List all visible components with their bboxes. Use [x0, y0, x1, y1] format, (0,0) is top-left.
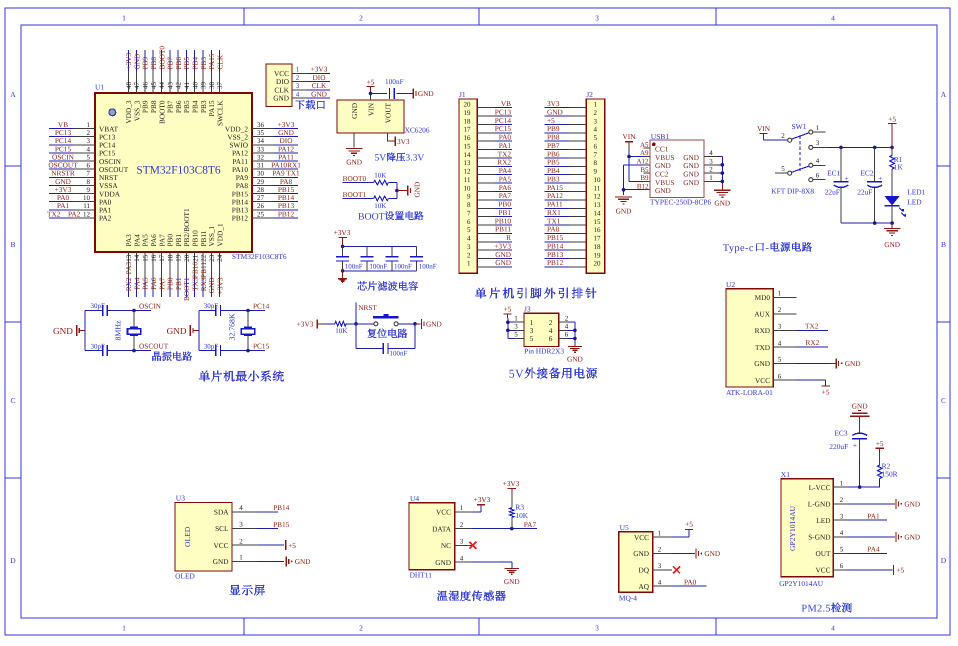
svg-text:D: D: [941, 556, 947, 565]
svg-text:31: 31: [257, 162, 265, 170]
X1 designator: [781, 470, 790, 479]
svg-text:EC2: EC2: [860, 169, 873, 178]
svg-text:B5: B5: [640, 166, 649, 174]
junction node filter top left: [341, 245, 345, 249]
svg-text:PA4: PA4: [867, 545, 880, 554]
U1 pin 34 SWIO: [229, 137, 274, 149]
svg-text:12: 12: [594, 193, 602, 201]
wire GND to EC3: [859, 420, 861, 434]
EC2 designator: [860, 169, 873, 178]
node GND label: [278, 128, 294, 137]
node RX2 label (J1): [497, 158, 511, 167]
svg-text:+3V3: +3V3: [474, 495, 491, 504]
junction node crystal/PC15: [246, 349, 250, 353]
node OSCOUT label: [139, 341, 169, 350]
svg-text:+5: +5: [822, 388, 830, 397]
svg-text:22uF: 22uF: [825, 188, 840, 197]
wire net at U1 pin 34: [274, 144, 298, 146]
svg-text:Type-c: Type-c: [723, 243, 754, 254]
svg-text:RXD: RXD: [755, 326, 770, 335]
ground bar GND (crystal): [167, 325, 193, 336]
crystal 8MHz leads: [133, 311, 135, 351]
node GND label: [55, 177, 71, 186]
sensor X1 GP2Y1014AU body: [781, 479, 833, 577]
J2 pin number 9: [594, 168, 598, 176]
svg-text:6: 6: [840, 562, 844, 570]
svg-text:GND: GND: [845, 359, 861, 368]
R1 value 1K: [894, 163, 904, 172]
wire net at U1 pin 5: [49, 160, 73, 162]
node PA11 label (J2): [547, 200, 563, 209]
power +5 port at R1: [888, 114, 896, 147]
node PC15 label: [253, 341, 270, 350]
label 芯片滤波电容: [357, 281, 417, 290]
node PB15 label: [278, 185, 295, 194]
svg-text:GND: GND: [413, 182, 422, 198]
wire capacitor to GND bar: [396, 92, 412, 94]
node +3V3 label: [278, 120, 295, 129]
svg-text:5: 5: [530, 334, 534, 343]
svg-text:28: 28: [257, 186, 265, 194]
svg-text:11: 11: [83, 202, 90, 210]
ground symbol U4: [505, 568, 519, 574]
node PB5 label: [182, 57, 191, 70]
wire net PB15 at J2 pin 17: [545, 241, 570, 243]
U5 pin 1 VCC: [634, 529, 672, 542]
wire net +3V3 at download pin 1: [308, 72, 331, 74]
crystal 8MHz: [127, 327, 140, 335]
wire net +5 at J2 pin 3: [545, 123, 570, 125]
node PB4 label: [191, 57, 200, 70]
svg-text:1: 1: [239, 554, 243, 562]
svg-text:3: 3: [709, 157, 713, 165]
wire net at U1 pin 12: [49, 217, 73, 219]
frame zone letters right: [941, 90, 947, 565]
power 3V3 port: [395, 136, 410, 146]
node BOOT0 label: [157, 46, 166, 70]
crystal 32.768K: [241, 327, 254, 335]
svg-text:19: 19: [594, 251, 602, 259]
svg-text:16: 16: [594, 226, 602, 234]
U1 designator: [95, 83, 104, 92]
wire net at U1 pin 13: [127, 277, 129, 297]
svg-text:10K: 10K: [374, 202, 386, 210]
svg-text:3: 3: [514, 323, 518, 331]
svg-text:GND: GND: [704, 549, 720, 558]
wire net at U1 pin 6: [49, 168, 73, 170]
USB1 pin A12 GND: [636, 158, 670, 171]
node PB13 label: [278, 201, 295, 210]
SW1 pin 3: [809, 139, 827, 149]
XC6206 pin name VIN: [366, 102, 375, 116]
wire net at U1 pin 17: [161, 277, 163, 297]
USB1 pin A9 VBUS: [640, 149, 675, 162]
power +5 bar (U3): [286, 540, 297, 550]
svg-text:5: 5: [781, 165, 785, 173]
resistor 10K on BOOT1: [374, 196, 389, 201]
U1 pin 46 PB9: [141, 71, 150, 113]
J1 pin number 13: [464, 159, 472, 167]
wire U3 SCL net PB15: [258, 528, 279, 530]
svg-text:+5: +5: [896, 566, 904, 575]
U1 pin 33 PA12: [232, 145, 274, 157]
resistor 10K (reset): [335, 322, 346, 327]
wire X1 pin2 to GND bar: [847, 503, 895, 505]
svg-text:GND: GND: [904, 533, 920, 542]
J2 pin 20 stub: [569, 266, 586, 268]
node OSCIN label: [52, 152, 75, 161]
node TX3 label: [191, 277, 200, 291]
svg-text:1: 1: [778, 290, 782, 298]
U5 pin 4 AQ: [638, 578, 672, 591]
svg-text:SW1: SW1: [792, 122, 807, 131]
wire net RX1 at J2 pin 14: [545, 216, 570, 218]
wire net GND at J2 pin 2: [545, 115, 570, 117]
node PC14 label (J1): [495, 116, 512, 125]
svg-text:47: 47: [133, 82, 141, 90]
svg-text:VCC: VCC: [436, 508, 451, 517]
crystal 32.768K leads: [247, 311, 249, 351]
svg-text:GND: GND: [346, 158, 362, 167]
wire J3 pin 5: [508, 337, 515, 339]
ground symbol filter caps: [338, 279, 347, 283]
svg-text:13: 13: [464, 159, 472, 167]
svg-text:3.3V: 3.3V: [405, 153, 424, 164]
XC6206 VOUT pin stub: [387, 133, 389, 139]
svg-text:4: 4: [831, 14, 835, 23]
USB1 pin B9 VBUS: [640, 174, 674, 187]
svg-text:100nF: 100nF: [345, 262, 363, 270]
wire net PB8 at J2 pin 5: [545, 140, 570, 142]
svg-text:OSCOUT: OSCOUT: [139, 341, 169, 350]
J1 pin number 16: [464, 134, 472, 142]
wire to USB right ground: [721, 184, 723, 190]
wire net PA12 at J2 pin 12: [545, 199, 570, 201]
svg-text:100nF: 100nF: [385, 77, 404, 86]
wire net at U1 pin 8: [49, 184, 73, 186]
node PB3 label: [199, 57, 208, 70]
wire net TX1 at J2 pin 15: [545, 224, 570, 226]
svg-text:8: 8: [467, 201, 471, 209]
svg-text:2: 2: [359, 14, 363, 23]
node PA7 label (J1): [499, 191, 512, 200]
wire net RX2 at J1 pin 13: [495, 165, 512, 167]
J1 pin number 19: [464, 109, 472, 117]
svg-text:10: 10: [83, 194, 91, 202]
node +3V3 label: [311, 65, 328, 74]
LED1 designator: [907, 187, 925, 196]
svg-text:+: +: [853, 441, 857, 450]
wire net PB3 at J2 pin 10: [545, 182, 570, 184]
svg-text:SCL: SCL: [215, 524, 229, 533]
U1 pin 2 PC13: [73, 129, 116, 141]
svg-text:4: 4: [709, 149, 713, 157]
svg-text:RX2: RX2: [806, 338, 820, 347]
wire USB right pin 2: [717, 172, 722, 174]
svg-text:7: 7: [594, 151, 598, 159]
wire filter cap top rail: [343, 245, 417, 247]
wire net GND at J1 pin 1: [495, 266, 512, 268]
J2 pin 15 stub: [569, 224, 586, 226]
resistor R1 1K: [890, 155, 895, 169]
wire net PB1 at J1 pin 7: [495, 216, 512, 218]
U1 pin 12 PA2: [73, 210, 112, 222]
wire crystal row OSCIN: [85, 310, 151, 312]
svg-text:L-GND: L-GND: [808, 500, 831, 509]
capacitor value 30pF (PC14): [204, 302, 219, 310]
node 3V3 label (J2): [547, 99, 560, 108]
wire net at U1 pin 39: [202, 50, 204, 71]
node RX2 label (U2): [806, 338, 820, 347]
U1 pin 41 PB5: [182, 71, 191, 113]
svg-text:PA2: PA2: [99, 214, 112, 223]
J1 pin 5 stub: [477, 232, 495, 234]
label 5V降压3.3V: [375, 153, 425, 164]
wire net at U1 pin 26: [274, 209, 298, 211]
wire net GND at download pin 4: [308, 97, 331, 99]
U1 pin 39 PB3: [199, 71, 208, 113]
U1 pin 9 VDDA: [73, 186, 121, 198]
R3 lead bottom: [511, 518, 513, 529]
J2 pin number 6: [594, 142, 598, 150]
svg-text:6: 6: [816, 171, 820, 179]
U3 comment OLED: [175, 572, 195, 581]
XC6206 pin name VOUT: [384, 102, 393, 123]
svg-text:TYPEC-250D-8CP6: TYPEC-250D-8CP6: [650, 198, 711, 207]
capacitor 100nF #2: [361, 257, 374, 261]
U1 comment STM32F103C8T6: [232, 252, 287, 261]
U1 pin 37 SWCLK: [215, 71, 224, 126]
svg-text:9: 9: [594, 168, 598, 176]
USB1 right pin 3 GND: [683, 157, 717, 170]
svg-text:+5: +5: [288, 541, 296, 550]
svg-text:38: 38: [208, 82, 216, 90]
node PA2 label at U1 pin 12: [68, 209, 81, 218]
svg-text:5: 5: [87, 153, 91, 161]
download port pin 2 DIO: [276, 74, 307, 86]
junction node L-VCC: [858, 485, 862, 489]
svg-text:2: 2: [296, 74, 300, 82]
node RX1 label (J2): [547, 208, 561, 217]
SW1 pin 6: [809, 171, 826, 181]
svg-text:4: 4: [840, 529, 844, 537]
regulator U? XC6206 body: [337, 100, 404, 133]
U1 pin 3 PC14: [73, 137, 116, 149]
node PB15 label (J2): [547, 233, 564, 242]
U1 pin 1 VBAT: [73, 121, 119, 133]
svg-text:8MHz: 8MHz: [114, 320, 123, 340]
svg-text:5: 5: [778, 356, 782, 364]
svg-text:3: 3: [778, 323, 782, 331]
U1 pin 48 VDD_3: [124, 71, 133, 124]
node GND label: [311, 89, 327, 98]
svg-text:32.768K: 32.768K: [228, 313, 237, 340]
svg-text:11: 11: [594, 184, 601, 192]
U1 pin 40 PB4: [191, 71, 200, 113]
USB1 comment TYPEC-250D-8CP6: [650, 198, 711, 207]
node DIO label: [313, 73, 326, 82]
node TX1 label (J2): [547, 216, 561, 225]
svg-text:VIN: VIN: [757, 124, 771, 133]
J1 pin 19 stub: [477, 115, 495, 117]
svg-text:LED: LED: [907, 197, 922, 206]
wire BOOT0 to resistor: [343, 182, 374, 184]
U1 pin 38 PA15: [207, 71, 216, 116]
ground symbol USB right: [714, 190, 731, 197]
svg-text:VCC: VCC: [634, 533, 649, 542]
capacitor 100nF #4: [410, 257, 423, 261]
R3 designator: [515, 503, 524, 512]
svg-text:22: 22: [200, 254, 208, 261]
wire net 3V3 at J2 pin 1: [545, 107, 570, 109]
J2 pin number 12: [594, 193, 602, 201]
svg-text:100nF: 100nF: [394, 262, 412, 270]
wire net at U1 pin 37: [219, 50, 221, 71]
node RX2 label: [124, 277, 133, 291]
U2 pin 6 VCC: [755, 372, 796, 385]
node PB11 label: [199, 262, 208, 278]
ground bar GND (U2): [836, 358, 860, 368]
capacitor 30pF (PC15): [216, 345, 221, 356]
U1 pin 25 PB12: [232, 210, 274, 222]
node PB10 label (J1): [495, 216, 512, 225]
node GND label (J1): [495, 258, 511, 267]
svg-text:GND: GND: [311, 89, 327, 98]
svg-text:17: 17: [464, 126, 472, 134]
svg-text:7: 7: [467, 209, 471, 217]
U1 pin 32 PA11: [232, 153, 274, 165]
wire U3 GND to gnd bar: [258, 561, 285, 563]
U2 pin 4 TXD: [755, 339, 796, 352]
node PB1 label: [174, 277, 183, 290]
svg-text:3: 3: [296, 82, 300, 90]
svg-text:+5: +5: [888, 114, 896, 123]
svg-text:18: 18: [594, 243, 602, 251]
svg-text:DHT11: DHT11: [410, 570, 433, 579]
wire reset cap bottom: [356, 348, 415, 350]
svg-text:B: B: [10, 240, 15, 249]
wire J3 pin 4: [567, 329, 575, 331]
wire GND pins A12/B12: [624, 165, 644, 195]
wire net PB7 at J2 pin 6: [545, 149, 570, 151]
node PA0 label: [684, 577, 697, 586]
svg-text:1: 1: [594, 101, 598, 109]
svg-text:GND: GND: [655, 186, 671, 195]
J2 pin number 11: [594, 184, 601, 192]
capacitor EC3 220uF: [852, 433, 867, 450]
J2 pin number 10: [594, 176, 602, 184]
wire net PB11 at J1 pin 5: [495, 232, 512, 234]
svg-text:1: 1: [816, 124, 820, 132]
XC6206 pin name GND: [350, 103, 359, 119]
R2 designator: [882, 461, 891, 470]
node PC14 label: [55, 136, 72, 145]
wire X1 pin4 to GND bar: [847, 536, 895, 538]
svg-text:2: 2: [565, 314, 569, 322]
U1 pin 16 PA6: [149, 234, 158, 277]
svg-text:13: 13: [594, 201, 602, 209]
SW1 comment KFT DIP-8X8: [771, 186, 814, 195]
USB1 right pin 2 GND: [683, 166, 717, 179]
svg-text:L-VCC: L-VCC: [809, 483, 831, 492]
frame row ticks left: [5, 166, 21, 478]
capacitor value 100nF #4: [419, 262, 437, 270]
junction node NRST: [354, 322, 358, 326]
svg-text:3: 3: [467, 243, 471, 251]
wire net at U1 pin 44: [161, 50, 163, 71]
junction node USB right gnd: [721, 180, 725, 184]
svg-text:GND: GND: [435, 558, 451, 567]
wire net at U1 pin 15: [144, 277, 146, 297]
J3 pin 4: [549, 323, 569, 336]
wire VIN to SW1 pin2: [764, 139, 788, 141]
svg-text:42: 42: [175, 82, 183, 90]
capacitor value 30pF (OSCOUT): [90, 343, 105, 351]
svg-text:1: 1: [122, 624, 126, 633]
U1 pin 24 VDD_1: [215, 223, 224, 277]
wire crystal left rail: [198, 311, 200, 351]
svg-text:9: 9: [87, 186, 91, 194]
node +5 label (J2): [547, 116, 555, 125]
svg-text:5: 5: [594, 134, 598, 142]
svg-text:Pin HDR2X3: Pin HDR2X3: [524, 347, 564, 356]
svg-text:VCC: VCC: [755, 376, 770, 385]
connector J2 body: [586, 99, 605, 273]
svg-text:A5: A5: [640, 141, 649, 149]
svg-text:GND: GND: [426, 319, 442, 328]
svg-text:25: 25: [257, 210, 265, 218]
wire VIN to VBUS pins: [629, 148, 644, 182]
U1 pin 30 PA9: [236, 170, 274, 182]
node PA8 label: [280, 177, 293, 186]
junction node USB GND: [622, 188, 626, 192]
J2 pin 10 stub: [569, 182, 586, 184]
wire net PB4 at J2 pin 9: [545, 174, 570, 176]
wire X1 pin6 to +5: [847, 569, 893, 571]
node VB label (J1): [501, 99, 511, 108]
svg-text:2: 2: [594, 109, 598, 117]
label 下载口: [295, 100, 325, 109]
wire J3 pin 2: [567, 321, 575, 323]
node NRST label: [358, 303, 377, 312]
wire U4 GND down to ground: [471, 562, 511, 568]
wire net PB13 at J2 pin 19: [545, 258, 570, 260]
ground bar GND (U5): [696, 549, 720, 559]
J1 pin number 18: [464, 117, 472, 125]
J2 pin number 20: [594, 260, 602, 268]
U1 pin 47 VSS_3: [132, 71, 141, 121]
svg-text:VCC: VCC: [213, 541, 228, 550]
U2 designator: [726, 280, 735, 289]
svg-text:ATK-LORA-01: ATK-LORA-01: [726, 388, 773, 397]
push button (reset): [373, 314, 399, 326]
ground label GND: [346, 158, 362, 167]
U1 pin 27 PB14: [232, 194, 274, 206]
svg-text:18: 18: [166, 254, 174, 261]
capacitor 100nF (reset): [383, 343, 388, 354]
svg-text:+: +: [845, 175, 849, 182]
ground bar GND (reset): [421, 319, 441, 329]
node PB4 label (J2): [547, 166, 560, 175]
wire net at U1 pin 4: [49, 152, 73, 154]
svg-text:220uF: 220uF: [829, 442, 848, 451]
node RX3 label: [199, 277, 208, 291]
svg-text:AUX: AUX: [754, 310, 771, 319]
ground label GND (USB right): [714, 198, 730, 207]
node PB12 label: [278, 209, 295, 218]
node PB6 label (J2): [547, 149, 560, 158]
svg-text:4: 4: [296, 90, 300, 98]
